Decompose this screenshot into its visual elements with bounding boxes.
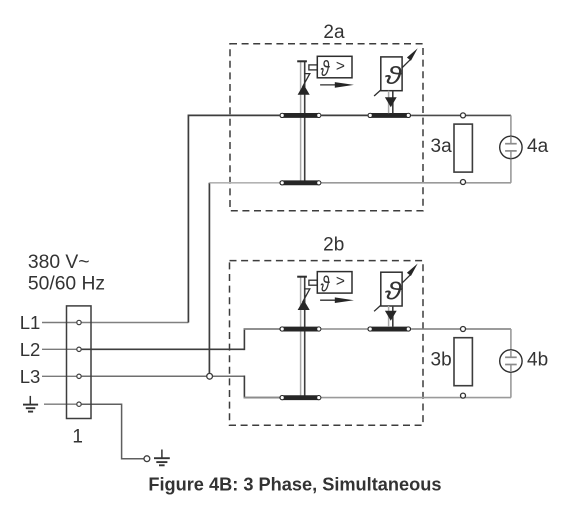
actuator link stub 2a xyxy=(309,65,317,70)
wire PE to external earth xyxy=(82,404,144,459)
adjustment arrow head 2b xyxy=(402,275,410,283)
contactor shaft 2b xyxy=(297,277,307,400)
svg-text:380 V~: 380 V~ xyxy=(28,252,90,273)
actuator link stub 2b xyxy=(309,280,317,285)
svg-text:L2: L2 xyxy=(20,339,41,360)
adjustment arrow tail 2b xyxy=(374,305,381,311)
contact bar 2b thermostat xyxy=(367,327,411,332)
enclosure box 2b (dashed) xyxy=(230,261,424,426)
svg-text:L1: L1 xyxy=(20,312,41,333)
contact bar 2b row2 xyxy=(279,395,321,400)
wire L2 row xyxy=(82,348,245,350)
contactor shaft 2a xyxy=(297,61,307,184)
svg-text:ϑ: ϑ xyxy=(321,57,331,82)
svg-text:3a: 3a xyxy=(431,136,453,157)
contact bar 2a row2 xyxy=(279,180,321,185)
wire from sensor 4a bottom xyxy=(510,151,512,183)
up arrow on shaft 2b xyxy=(298,300,310,310)
wire 2b row1 mid xyxy=(321,328,367,330)
wire L2 jog up into 2b row1 xyxy=(244,329,279,350)
terminal L2 xyxy=(77,347,81,351)
contact bar 2b row1 xyxy=(279,327,321,332)
svg-text:2a: 2a xyxy=(323,22,345,43)
wire 2a row2 right xyxy=(321,182,511,184)
wire to sensor 4a top xyxy=(510,115,512,143)
thermostat box 2b xyxy=(381,272,402,306)
heating element 3a terminal top xyxy=(461,113,466,118)
heating element 3b terminal bottom xyxy=(461,393,466,398)
PE terminal node xyxy=(144,456,150,462)
contact bar 2a thermostat xyxy=(367,113,411,118)
down arrow on thermostat shaft 2b xyxy=(385,311,397,321)
terminal PE xyxy=(77,402,81,406)
svg-text:3b: 3b xyxy=(431,350,452,371)
svg-text:Figure 4B: 3 Phase, Simultaneo: Figure 4B: 3 Phase, Simultaneous xyxy=(148,475,441,495)
svg-text:>: > xyxy=(336,58,345,75)
wire L1 riser to 2a row1 xyxy=(188,115,279,322)
thermostat box 2a xyxy=(381,57,402,91)
wire L1 row to riser xyxy=(82,322,189,324)
svg-text:2b: 2b xyxy=(323,235,344,256)
wire 2a row1 right xyxy=(411,114,511,116)
svg-text:1: 1 xyxy=(72,427,83,448)
svg-text:ϑ: ϑ xyxy=(385,61,404,89)
terminal block 1 xyxy=(67,306,92,419)
wire L3 row xyxy=(82,375,245,377)
heating element 3b terminal top xyxy=(461,327,466,332)
heating element 3a terminal bottom xyxy=(461,180,466,185)
thermal cutout box 2a xyxy=(317,56,352,78)
sensor 4a xyxy=(500,136,522,158)
up arrow on shaft 2a xyxy=(298,84,310,94)
junction node on L3 xyxy=(207,373,213,379)
actuation arrow 2b xyxy=(320,299,340,301)
thermostat shaft 2a xyxy=(389,91,393,114)
adjustment arrow tail 2a xyxy=(374,90,381,96)
wire L2 stub xyxy=(42,348,76,350)
svg-text:ϑ: ϑ xyxy=(321,272,331,297)
wire L3 stub xyxy=(42,375,76,377)
heating element 3b xyxy=(454,338,472,386)
svg-text:>: > xyxy=(336,273,345,290)
lever 2b xyxy=(303,289,310,302)
wire L3 jog down into 2b row2 xyxy=(244,376,279,398)
wire PE stub xyxy=(44,403,76,405)
wire 2a row2 left xyxy=(209,182,279,184)
wire L3 riser to 2a row2 xyxy=(208,183,210,376)
actuation arrow 2a xyxy=(320,84,340,86)
terminal L3 xyxy=(77,374,81,378)
wire 2b row2 right xyxy=(321,397,511,399)
wire L1 stub xyxy=(42,322,76,324)
thermal cutout box 2b xyxy=(317,272,352,294)
terminal L1 xyxy=(77,320,81,324)
lever 2a xyxy=(303,74,310,87)
down arrow on thermostat shaft 2a xyxy=(385,97,397,107)
wire from sensor 4b bottom xyxy=(510,365,512,398)
svg-text:4b: 4b xyxy=(527,350,548,371)
earth symbol external xyxy=(154,450,170,466)
wire 2b row1 left xyxy=(244,328,280,330)
enclosure box 2a (dashed) xyxy=(230,44,423,211)
wire 2a row1 mid xyxy=(321,114,367,116)
svg-text:4a: 4a xyxy=(527,136,549,157)
earth symbol at supply xyxy=(23,396,38,412)
svg-text:50/60 Hz: 50/60 Hz xyxy=(28,274,105,295)
sensor 4b xyxy=(500,350,522,372)
wire 2b row1 right xyxy=(411,328,511,330)
wire 2b row2 left xyxy=(244,397,280,399)
contact bar 2a row1 xyxy=(279,113,321,118)
svg-text:ϑ: ϑ xyxy=(385,277,404,305)
heating element 3a xyxy=(454,124,472,172)
svg-text:L3: L3 xyxy=(20,366,41,387)
adjustment arrow head 2a xyxy=(402,60,410,68)
wire to sensor 4b top xyxy=(510,329,512,357)
thermostat shaft 2b xyxy=(389,306,393,327)
